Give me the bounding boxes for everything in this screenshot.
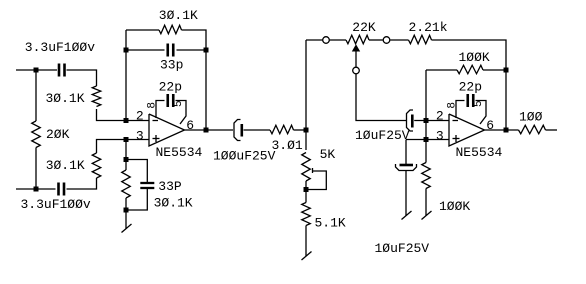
svg-text:22p: 22p	[159, 80, 182, 95]
svg-text:1ØuF25V: 1ØuF25V	[355, 128, 410, 143]
svg-text:2.21k: 2.21k	[409, 20, 448, 35]
svg-text:1ØuF25V: 1ØuF25V	[375, 241, 430, 256]
svg-text:8: 8	[447, 102, 459, 109]
svg-text:33p: 33p	[160, 58, 183, 73]
svg-text:3Ø.1K: 3Ø.1K	[46, 91, 85, 106]
svg-text:2: 2	[436, 109, 444, 124]
svg-text:6: 6	[186, 118, 194, 133]
svg-text:22K: 22K	[352, 20, 376, 35]
svg-text:2ØK: 2ØK	[46, 127, 70, 142]
svg-text:1ØØuF25V: 1ØØuF25V	[213, 148, 276, 163]
svg-text:6: 6	[486, 118, 494, 133]
svg-text:3.3uF1ØØv: 3.3uF1ØØv	[25, 40, 95, 55]
svg-text:1ØØK: 1ØØK	[459, 50, 490, 65]
svg-text:5: 5	[173, 100, 185, 107]
svg-text:8: 8	[147, 102, 159, 109]
svg-text:5.1K: 5.1K	[315, 216, 346, 231]
svg-text:2: 2	[136, 109, 144, 124]
svg-text:3: 3	[136, 129, 144, 144]
svg-text:3Ø.1K: 3Ø.1K	[46, 158, 85, 173]
svg-text:3.3uF1ØØv: 3.3uF1ØØv	[21, 197, 91, 212]
svg-text:5: 5	[473, 100, 485, 107]
svg-text:1ØØK: 1ØØK	[439, 199, 470, 214]
svg-text:22p: 22p	[459, 80, 482, 95]
svg-text:33P: 33P	[158, 179, 182, 194]
svg-text:3: 3	[436, 129, 444, 144]
svg-text:1ØØ: 1ØØ	[519, 109, 543, 124]
svg-text:NE5534: NE5534	[456, 145, 503, 160]
svg-text:3Ø.1K: 3Ø.1K	[159, 8, 198, 23]
svg-text:NE5534: NE5534	[156, 145, 203, 160]
svg-text:5K: 5K	[320, 147, 336, 162]
svg-text:3.Ø1: 3.Ø1	[272, 138, 303, 153]
svg-text:3Ø.1K: 3Ø.1K	[154, 196, 193, 211]
